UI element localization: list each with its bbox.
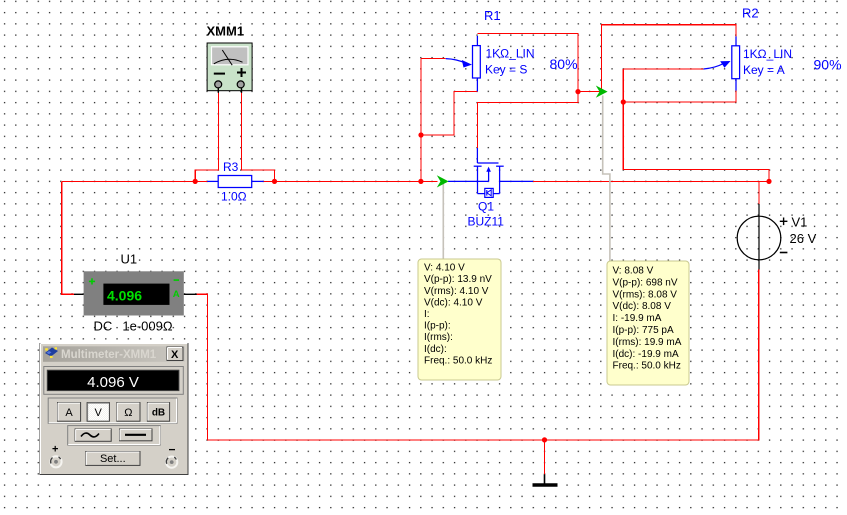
svg-text:4.096 V: 4.096 V bbox=[87, 374, 139, 391]
svg-text:V(p-p): 13.9 nV: V(p-p): 13.9 nV bbox=[424, 274, 492, 285]
svg-text:4.096: 4.096 bbox=[107, 287, 142, 303]
ground bbox=[533, 474, 558, 485]
svg-text:−: − bbox=[169, 443, 176, 457]
svg-text:A: A bbox=[65, 407, 73, 419]
wire R2 node down to V1 node bbox=[623, 102, 769, 181]
svg-text:V1: V1 bbox=[792, 215, 808, 230]
svg-text:V(p-p): 698 nV: V(p-p): 698 nV bbox=[613, 277, 678, 288]
probe2 leader line bbox=[603, 96, 610, 262]
wire R1 top to node bbox=[477, 33, 578, 91]
multimeter window Multimeter-XMM1 bbox=[40, 344, 188, 475]
instrument display 4.096 V bbox=[44, 367, 184, 395]
svg-text:Multimeter-XMM1: Multimeter-XMM1 bbox=[61, 349, 157, 361]
svg-text:I(rms):: I(rms): bbox=[424, 332, 453, 343]
Q1 gate arrowhead bbox=[486, 167, 491, 172]
probe2 readout box bbox=[607, 261, 689, 385]
svg-text:BUZ11: BUZ11 bbox=[468, 215, 505, 229]
wire R1 loop down to bus bbox=[420, 135, 422, 181]
svg-text:Freq.: 50.0 kHz: Freq.: 50.0 kHz bbox=[424, 355, 492, 366]
R1 wiper arrowhead bbox=[462, 60, 472, 68]
wire R1 node up to R2 top bbox=[602, 25, 737, 92]
junction bus-V1 node bbox=[766, 179, 771, 184]
svg-text:Key = S: Key = S bbox=[485, 63, 527, 77]
svg-text:V: 8.08 V: V: 8.08 V bbox=[613, 266, 654, 277]
svg-text:26 V: 26 V bbox=[790, 231, 817, 246]
junction ground node bbox=[542, 437, 547, 442]
source V1 bbox=[737, 204, 787, 270]
svg-text:X: X bbox=[171, 349, 179, 361]
svg-text:80%: 80% bbox=[550, 56, 578, 72]
probe1 leader line bbox=[442, 184, 444, 259]
svg-text:1KΩ_LIN: 1KΩ_LIN bbox=[486, 47, 535, 61]
svg-text:1.0Ω: 1.0Ω bbox=[221, 190, 247, 204]
svg-text:Ω: Ω bbox=[124, 407, 132, 419]
window icon bbox=[45, 347, 58, 358]
plus terminal jack bbox=[50, 456, 61, 467]
wire V1 top pin bbox=[758, 181, 760, 204]
multimeter XMM1 symbol bbox=[207, 43, 252, 93]
svg-text:Set...: Set... bbox=[100, 453, 126, 465]
wire XMM1 plus lead to bus bbox=[242, 93, 275, 182]
potentiometer R2 bbox=[704, 36, 740, 90]
button sine bbox=[75, 429, 111, 441]
svg-text:Q1: Q1 bbox=[478, 200, 494, 214]
potentiometer R1 bbox=[446, 36, 481, 91]
svg-text:I(p-p): 775 pA: I(p-p): 775 pA bbox=[613, 325, 674, 336]
junction R2 bottom node bbox=[621, 99, 626, 104]
junction R1 top node bbox=[575, 89, 580, 94]
svg-text:90%: 90% bbox=[814, 57, 842, 73]
svg-text:V(rms): 4.10 V: V(rms): 4.10 V bbox=[424, 286, 489, 297]
svg-text:V(dc): 4.10 V: V(dc): 4.10 V bbox=[424, 297, 483, 308]
svg-text:V(dc): 8.08 V: V(dc): 8.08 V bbox=[613, 301, 672, 312]
junction R1 wiper loop bbox=[418, 132, 423, 137]
svg-text:V: V bbox=[95, 407, 103, 419]
svg-text:dB: dB bbox=[152, 407, 165, 418]
svg-text:+: + bbox=[52, 444, 58, 456]
probe2 green arrow bbox=[596, 86, 608, 98]
svg-text:Key = A: Key = A bbox=[743, 63, 785, 77]
wire XMM1 minus lead to bus bbox=[195, 93, 218, 182]
close button X bbox=[167, 347, 183, 361]
svg-text:A: A bbox=[173, 289, 180, 300]
mode buttons panel bbox=[48, 398, 177, 423]
svg-text:I(rms): 19.9 mA: I(rms): 19.9 mA bbox=[613, 337, 682, 348]
wire node down to Q1 gate bbox=[477, 92, 578, 148]
junction bus-R1 loop bbox=[418, 179, 423, 184]
svg-text:1KΩ_LIN: 1KΩ_LIN bbox=[743, 47, 792, 61]
Q1 body diode triangle bbox=[487, 190, 491, 196]
svg-text:I: -19.9 mA: I: -19.9 mA bbox=[613, 313, 662, 324]
wire bus R3 to probe1 bbox=[264, 180, 438, 182]
wire left drop to U1 bbox=[62, 181, 74, 294]
wire bus Q1 to V1 node bbox=[533, 180, 769, 182]
button Set bbox=[86, 452, 140, 466]
wire R1 wiper horizontal bbox=[421, 58, 446, 60]
svg-text:XMM1: XMM1 bbox=[207, 24, 245, 39]
svg-text:V: 4.10 V: V: 4.10 V bbox=[424, 263, 465, 274]
R2 wiper arrowhead bbox=[720, 61, 730, 68]
svg-text:U1: U1 bbox=[121, 252, 138, 267]
wire node to probe2 bbox=[578, 91, 602, 93]
wire R2 wiper-bottom loop bbox=[623, 69, 736, 102]
svg-text:Freq.: 50.0 kHz: Freq.: 50.0 kHz bbox=[613, 361, 681, 372]
svg-text:V(rms): 8.08 V: V(rms): 8.08 V bbox=[613, 289, 678, 300]
wire R2 wiper horizontal bbox=[623, 68, 703, 70]
wire ground stub bbox=[544, 440, 546, 474]
svg-text:I(p-p):: I(p-p): bbox=[424, 321, 451, 332]
svg-text:R1: R1 bbox=[484, 8, 501, 23]
waveform buttons panel bbox=[68, 426, 161, 445]
ammeter U1 bbox=[74, 271, 197, 315]
probe1 green arrow bbox=[437, 175, 449, 187]
resistor R3 bbox=[207, 176, 263, 188]
svg-text:R3: R3 bbox=[223, 160, 239, 174]
minus terminal jack bbox=[166, 457, 177, 468]
transistor Q1 BUZ11 bbox=[448, 148, 533, 197]
svg-text:R2: R2 bbox=[742, 6, 759, 21]
svg-text:I:: I: bbox=[424, 309, 430, 320]
wire main bus left segment bbox=[62, 180, 208, 182]
svg-text:I(dc): -19.9 mA: I(dc): -19.9 mA bbox=[613, 349, 679, 360]
button V pressed bbox=[87, 403, 109, 422]
junction bus-XMM1 right bbox=[272, 179, 277, 184]
button Ohm bbox=[117, 403, 140, 422]
button dB bbox=[147, 403, 169, 422]
svg-text:DC 1e-009Ω: DC 1e-009Ω bbox=[94, 319, 173, 334]
wire U1 right to bottom bus to V1 bbox=[197, 270, 759, 440]
junction bus-XMM1 left bbox=[193, 179, 198, 184]
wire R1 wiper-bottom loop bbox=[421, 59, 477, 135]
svg-text:I(dc):: I(dc): bbox=[424, 344, 447, 355]
button A bbox=[58, 403, 81, 422]
button dc line bbox=[120, 429, 152, 441]
probe1 readout box bbox=[418, 259, 501, 380]
